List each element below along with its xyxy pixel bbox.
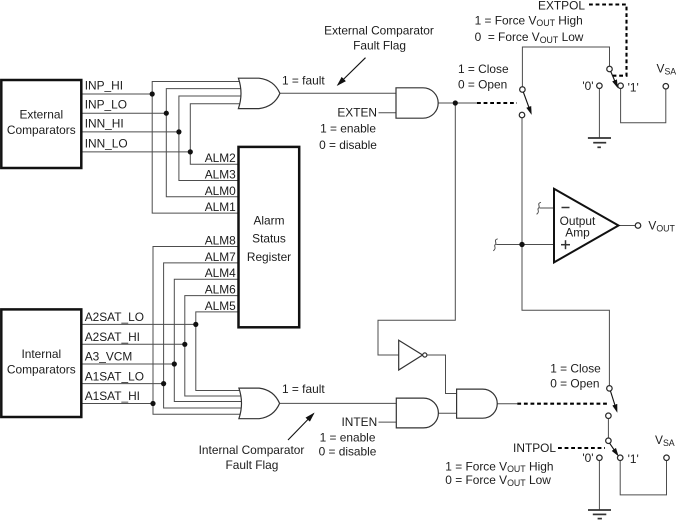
svg-text:1 = enable: 1 = enable bbox=[320, 122, 376, 136]
svg-text:VSA: VSA bbox=[655, 433, 675, 448]
svg-text:Internal Comparator: Internal Comparator bbox=[199, 443, 305, 457]
wire INN_LO to OR1 input and ALM2 bbox=[190, 104, 249, 165]
svg-text:A1SAT_LO: A1SAT_LO bbox=[85, 370, 144, 384]
dashed control: AND2 output to switch S3 bbox=[517, 403, 608, 405]
svg-text:ALM5: ALM5 bbox=[205, 299, 236, 313]
arrow external comparator fault flag bbox=[338, 58, 366, 85]
wire INP_HI to OR1 input and ALM1 bbox=[152, 82, 249, 214]
svg-text:ALM2: ALM2 bbox=[205, 151, 236, 165]
svg-text:Amp: Amp bbox=[565, 226, 590, 240]
arrow internal comparator fault flag bbox=[288, 414, 314, 440]
svg-text:Status: Status bbox=[252, 232, 286, 246]
svg-text:0 = disable: 0 = disable bbox=[319, 138, 377, 152]
wire INP_LO to OR1 input and ALM0 bbox=[166, 89, 249, 197]
switch S1 bottom terminal bbox=[519, 112, 525, 118]
and-gate AND2 internal path bbox=[457, 389, 498, 418]
svg-text:'1': '1' bbox=[628, 452, 639, 466]
node A1SAT_HI junction bbox=[150, 401, 155, 406]
box Alarm Status Register bbox=[239, 147, 300, 327]
svg-text:'1': '1' bbox=[628, 81, 639, 95]
switch EXTPOL common terminal bbox=[607, 66, 613, 72]
wire switch S1 bottom to op-amp node B and down to switch S3 bbox=[522, 118, 609, 386]
node A (external enable output) bbox=[453, 100, 458, 105]
svg-text:INTPOL: INTPOL bbox=[513, 441, 556, 455]
svg-text:ALM3: ALM3 bbox=[205, 168, 236, 182]
svg-text:VOUT: VOUT bbox=[648, 219, 675, 234]
wire A2SAT_LO bbox=[81, 323, 196, 325]
svg-text:1 = fault: 1 = fault bbox=[282, 73, 325, 87]
wire ALM5 to A2SAT_LO and OR2 input bbox=[196, 312, 249, 391]
wire node A down to inverter input bbox=[378, 103, 455, 355]
wire INP_LO bbox=[81, 112, 166, 114]
wire A1SAT_LO bbox=[81, 383, 163, 385]
svg-text:1 = enable: 1 = enable bbox=[320, 431, 376, 445]
switch EXTPOL '1' terminal bbox=[618, 83, 624, 89]
wire op-amp minus input bbox=[540, 207, 555, 209]
dashed control: node A to switch S1 bbox=[477, 102, 517, 104]
inverter U3 bbox=[399, 340, 423, 370]
svg-text:EXTPOL: EXTPOL bbox=[538, 0, 585, 13]
svg-text:INP_HI: INP_HI bbox=[85, 79, 123, 93]
inverter bubble bbox=[423, 353, 427, 357]
op-amp plus sign bbox=[561, 240, 570, 249]
wire op-amp output to VOUT terminal bbox=[619, 225, 636, 227]
and-gate INTEN enable bbox=[396, 398, 438, 428]
svg-text:Alarm: Alarm bbox=[253, 213, 284, 227]
wire switch S1 top to EXTPOL common bbox=[522, 47, 609, 87]
wire ALM4 to A3_VCM and OR2 input bbox=[174, 279, 249, 401]
wire INTPOL '0' to ground bbox=[598, 460, 600, 510]
dashed control: INTPOL to switch bbox=[558, 447, 605, 449]
wire OR2 output to AND-INTEN input (internal fault) bbox=[280, 402, 397, 404]
node INN_HI junction bbox=[176, 129, 181, 134]
switch S1 arm bbox=[523, 92, 531, 113]
node INP_LO junction bbox=[164, 111, 169, 116]
VSA terminal (bottom) bbox=[664, 455, 670, 461]
svg-text:Comparators: Comparators bbox=[7, 123, 76, 137]
svg-text:ALM8: ALM8 bbox=[205, 234, 236, 248]
wire op-amp plus input bbox=[496, 244, 554, 246]
switch INTPOL common terminal bbox=[606, 438, 612, 444]
wire ALM7 to A1SAT_LO and OR2 input bbox=[164, 263, 249, 408]
svg-text:Fault Flag: Fault Flag bbox=[225, 458, 278, 472]
switch EXTPOL '0' terminal bbox=[597, 83, 603, 89]
wire AND2 output bbox=[497, 403, 517, 405]
VSA terminal (top) bbox=[663, 84, 669, 90]
svg-text:Register: Register bbox=[247, 250, 291, 264]
node A3_VCM junction bbox=[172, 361, 177, 366]
svg-text:ALM1: ALM1 bbox=[205, 200, 236, 214]
box Internal Comparators bbox=[1, 309, 81, 417]
svg-text:A3_VCM: A3_VCM bbox=[85, 350, 133, 364]
svg-text:INN_HI: INN_HI bbox=[85, 116, 124, 130]
wire A2SAT_HI bbox=[81, 343, 185, 345]
dashed control: EXTPOL to switch bbox=[589, 5, 627, 76]
svg-text:VSA: VSA bbox=[657, 62, 676, 77]
svg-text:ALM7: ALM7 bbox=[205, 250, 236, 264]
ground (bottom, INTPOL '0') bbox=[588, 510, 611, 519]
svg-text:EXTEN: EXTEN bbox=[337, 105, 377, 119]
svg-text:Fault Flag: Fault Flag bbox=[353, 39, 406, 53]
svg-text:'0': '0' bbox=[582, 79, 593, 93]
squiggle on op-amp plus input bbox=[493, 239, 497, 251]
switch S3 arm bbox=[610, 391, 616, 411]
node A2SAT_LO junction bbox=[193, 322, 198, 327]
wire AND-INTEN output to AND2 bottom input bbox=[438, 412, 456, 414]
op-amp minus sign bbox=[562, 207, 570, 209]
squiggle on op-amp minus input bbox=[537, 202, 541, 214]
wire INTPOL '1' to VSA terminal bbox=[620, 460, 666, 495]
wire EXTPOL '0' to ground bbox=[598, 88, 600, 138]
node A2SAT_HI junction bbox=[182, 342, 187, 347]
switch INTPOL '0' terminal bbox=[597, 455, 603, 461]
wire ALM8 to A1SAT_HI and OR2 input bbox=[153, 247, 249, 415]
wire INN_HI to OR1 input and ALM3 bbox=[179, 96, 249, 181]
svg-text:1 = Close: 1 = Close bbox=[550, 362, 601, 376]
wire A1SAT_HI bbox=[81, 403, 153, 405]
node INN_LO junction bbox=[188, 149, 193, 154]
switch S3 top terminal bbox=[607, 386, 613, 392]
svg-text:External Comparator: External Comparator bbox=[324, 23, 434, 37]
svg-text:'0': '0' bbox=[582, 451, 593, 465]
switch S3 bottom terminal bbox=[606, 413, 612, 419]
and-gate EXTEN enable bbox=[396, 88, 438, 118]
svg-text:1 = fault: 1 = fault bbox=[282, 382, 325, 396]
wire AND-EXTEN output to node A bbox=[438, 102, 477, 104]
svg-text:0 = Force VOUT Low: 0 = Force VOUT Low bbox=[475, 30, 584, 45]
svg-text:External: External bbox=[19, 108, 63, 122]
switch EXTPOL arm bbox=[611, 71, 617, 86]
svg-text:ALM4: ALM4 bbox=[205, 266, 236, 280]
wire switch S3 bottom to INTPOL common bbox=[607, 418, 609, 438]
svg-text:A2SAT_HI: A2SAT_HI bbox=[85, 330, 140, 344]
svg-text:0 = disable: 0 = disable bbox=[319, 444, 377, 458]
wire INTEN label to AND-INTEN bbox=[379, 421, 397, 423]
wire INN_HI bbox=[81, 131, 179, 133]
ground (top, EXTPOL '0') bbox=[588, 138, 611, 147]
svg-text:1 = Force VOUT High: 1 = Force VOUT High bbox=[475, 13, 583, 28]
switch INTPOL arm bbox=[610, 443, 618, 454]
svg-text:INN_LO: INN_LO bbox=[85, 136, 128, 150]
svg-text:ALM6: ALM6 bbox=[205, 283, 236, 297]
svg-text:Internal: Internal bbox=[21, 347, 61, 361]
wire A3_VCM bbox=[81, 363, 174, 365]
svg-text:0 = Force VOUT Low: 0 = Force VOUT Low bbox=[445, 473, 551, 488]
switch INTPOL '1' terminal bbox=[617, 455, 623, 461]
wire EXTPOL '1' to VSA terminal bbox=[621, 88, 666, 122]
VOUT terminal bbox=[635, 223, 641, 229]
svg-text:A1SAT_HI: A1SAT_HI bbox=[85, 389, 140, 403]
wire inverter output to AND2 top input bbox=[427, 355, 457, 394]
svg-text:1 = Close: 1 = Close bbox=[458, 62, 509, 76]
wire ALM6 to A2SAT_HI and OR2 input bbox=[185, 296, 249, 396]
svg-text:0 = Open: 0 = Open bbox=[458, 78, 507, 92]
wire INN_LO bbox=[81, 151, 190, 153]
node INP_HI junction bbox=[150, 91, 155, 96]
node B op-amp plus junction bbox=[519, 242, 524, 247]
wire EXTEN label to AND-EXTEN bbox=[379, 112, 397, 114]
svg-text:Comparators: Comparators bbox=[7, 363, 76, 377]
or-gate OR2 internal fault bbox=[239, 388, 280, 419]
svg-text:A2SAT_LO: A2SAT_LO bbox=[85, 310, 144, 324]
svg-text:INTEN: INTEN bbox=[342, 415, 378, 429]
box External Comparators bbox=[1, 80, 81, 168]
wire INP_HI bbox=[81, 93, 152, 95]
op-amp U1 Output Amp bbox=[554, 189, 619, 263]
svg-text:INP_LO: INP_LO bbox=[85, 98, 127, 112]
switch S1 top terminal bbox=[520, 87, 526, 93]
svg-text:0 = Open: 0 = Open bbox=[550, 377, 599, 391]
svg-text:ALM0: ALM0 bbox=[205, 184, 236, 198]
or-gate OR1 external fault bbox=[238, 78, 280, 108]
node A1SAT_LO junction bbox=[161, 381, 166, 386]
svg-text:1 = Force VOUT High: 1 = Force VOUT High bbox=[445, 459, 553, 474]
wire OR1 output to AND-EXTEN input (external fault) bbox=[280, 92, 396, 94]
